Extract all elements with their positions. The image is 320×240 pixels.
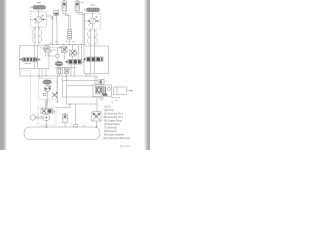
wires: left block bottom to pilot group — [39, 69, 46, 79]
control valve bank CV1 (centre row) — [65, 60, 84, 65]
control valve bank CV2 (right block row) — [83, 57, 103, 62]
svg-text:(2) Pump: (2) Pump — [104, 110, 114, 112]
valve stack V1 (top centre-left) — [62, 1, 67, 11]
motor block (right large box) — [84, 46, 109, 74]
nested supply lines to swing unit — [63, 76, 98, 125]
accumulator T1 (thin tall, centre) — [68, 30, 72, 45]
check valve (right of junction block) — [65, 68, 70, 76]
wire: charge group to supply line — [56, 103, 71, 107]
servo cylinder A1 (left pump top) — [31, 6, 46, 10]
wire: cylinder A2 to pump P2 — [92, 12, 94, 18]
gear pump oval (dark lens) — [55, 62, 63, 66]
wire pair: pump P1 down — [35, 27, 40, 29]
wire: cylinder A1 to pump P1 — [38, 9, 40, 16]
pump P2 (right main pump) — [85, 14, 101, 30]
bus wire (centre horizontal) — [47, 44, 87, 45]
svg-text:(10) Generator Valve Assy: (10) Generator Valve Assy — [103, 137, 131, 140]
dashed pilot line (horizontal with arrow) — [40, 47, 61, 49]
breather valve (above tank, centre) — [63, 114, 68, 128]
svg-text:(6) Relief Valve: (6) Relief Valve — [104, 124, 120, 126]
label 10 (right of filter box) — [103, 117, 106, 119]
pump P1 (left main pump) — [31, 12, 47, 28]
return line (long horizontal) — [20, 69, 97, 77]
pilot filter F2 (lens) — [44, 46, 52, 54]
small accumulator (left of stacks) — [51, 11, 59, 45]
servo cylinder A2 (right pump top) — [84, 8, 99, 12]
relief valve RV1 (centre small square) — [62, 47, 68, 60]
suction bellows (left, double bulge) — [32, 27, 42, 46]
right page-edge shadow — [144, 0, 150, 150]
svg-text:Fig. 2-10: Fig. 2-10 — [120, 145, 130, 148]
label a (on tank) — [70, 123, 72, 125]
hydraulic cylinder C1 (right) — [111, 87, 133, 100]
electric motor M1 — [30, 115, 43, 120]
tiny label near centre wire — [50, 42, 53, 44]
label (2) above cylinder A2 — [91, 4, 95, 6]
filter F1 (diamond, left block top-right) — [43, 44, 49, 57]
wire pair: V2 jog right and down to motor block — [76, 11, 85, 45]
small gauge circle — [56, 48, 60, 62]
figure caption — [120, 145, 130, 148]
oil cooler (in left block) — [20, 58, 41, 64]
wires: right block bottom stubs — [87, 74, 98, 86]
reservoir tank — [24, 125, 100, 140]
radiator block (left large box) — [20, 46, 50, 69]
legend tick mark — [112, 102, 114, 105]
svg-text:(5) Charge Pump: (5) Charge Pump — [104, 119, 123, 122]
tiny label at line corner — [98, 97, 101, 99]
legend list — [103, 106, 131, 140]
valve stack V2 (top centre-right) — [75, 1, 80, 11]
svg-text:(7) Solenoid: (7) Solenoid — [104, 127, 117, 129]
tiny label top right of stacks — [81, 2, 84, 4]
return filter box (X square) — [92, 112, 101, 121]
tiny label right of lens — [54, 49, 57, 51]
dashed pilot line (left vertical) — [21, 71, 31, 113]
pilot pump group (dashed box) — [39, 79, 58, 106]
wires: bus to valve row — [78, 45, 81, 60]
charge pump group (dashed box) — [38, 107, 56, 127]
tiny callout labels above bus — [55, 41, 75, 43]
wire: lens to circle junction — [48, 53, 56, 56]
wire: pump P1 right side to centre — [47, 16, 53, 46]
svg-text:(9) Suction Strainer: (9) Suction Strainer — [104, 133, 124, 136]
svg-text:(3) Assembly No.1: (3) Assembly No.1 — [104, 112, 124, 115]
short horizontal link line — [56, 65, 77, 77]
svg-text:(4) Assembly No.2: (4) Assembly No.2 — [104, 116, 124, 119]
svg-text:(8) Pressure: (8) Pressure — [104, 130, 118, 133]
wire pair: pump P2 down — [91, 29, 95, 32]
drain arrow wire — [57, 76, 59, 103]
wire pair: pilot group to charge group — [45, 100, 47, 109]
junction block (below oval) — [57, 66, 63, 76]
suction bellows (right, double bulge) — [88, 29, 98, 46]
left page-edge shadow — [0, 0, 7, 150]
relief valve RV2 (centre, with spring) — [70, 45, 78, 60]
swing motor unit (right cluster) — [93, 84, 112, 100]
svg-text:(1) Oil: (1) Oil — [104, 106, 111, 108]
wire pair: V1 jog right down to accumulator T1 — [63, 11, 71, 30]
label (1) above cylinder A1 — [37, 2, 41, 4]
pilot valve above swing unit — [99, 80, 107, 85]
wire: swing unit to filter to tank — [96, 97, 97, 128]
